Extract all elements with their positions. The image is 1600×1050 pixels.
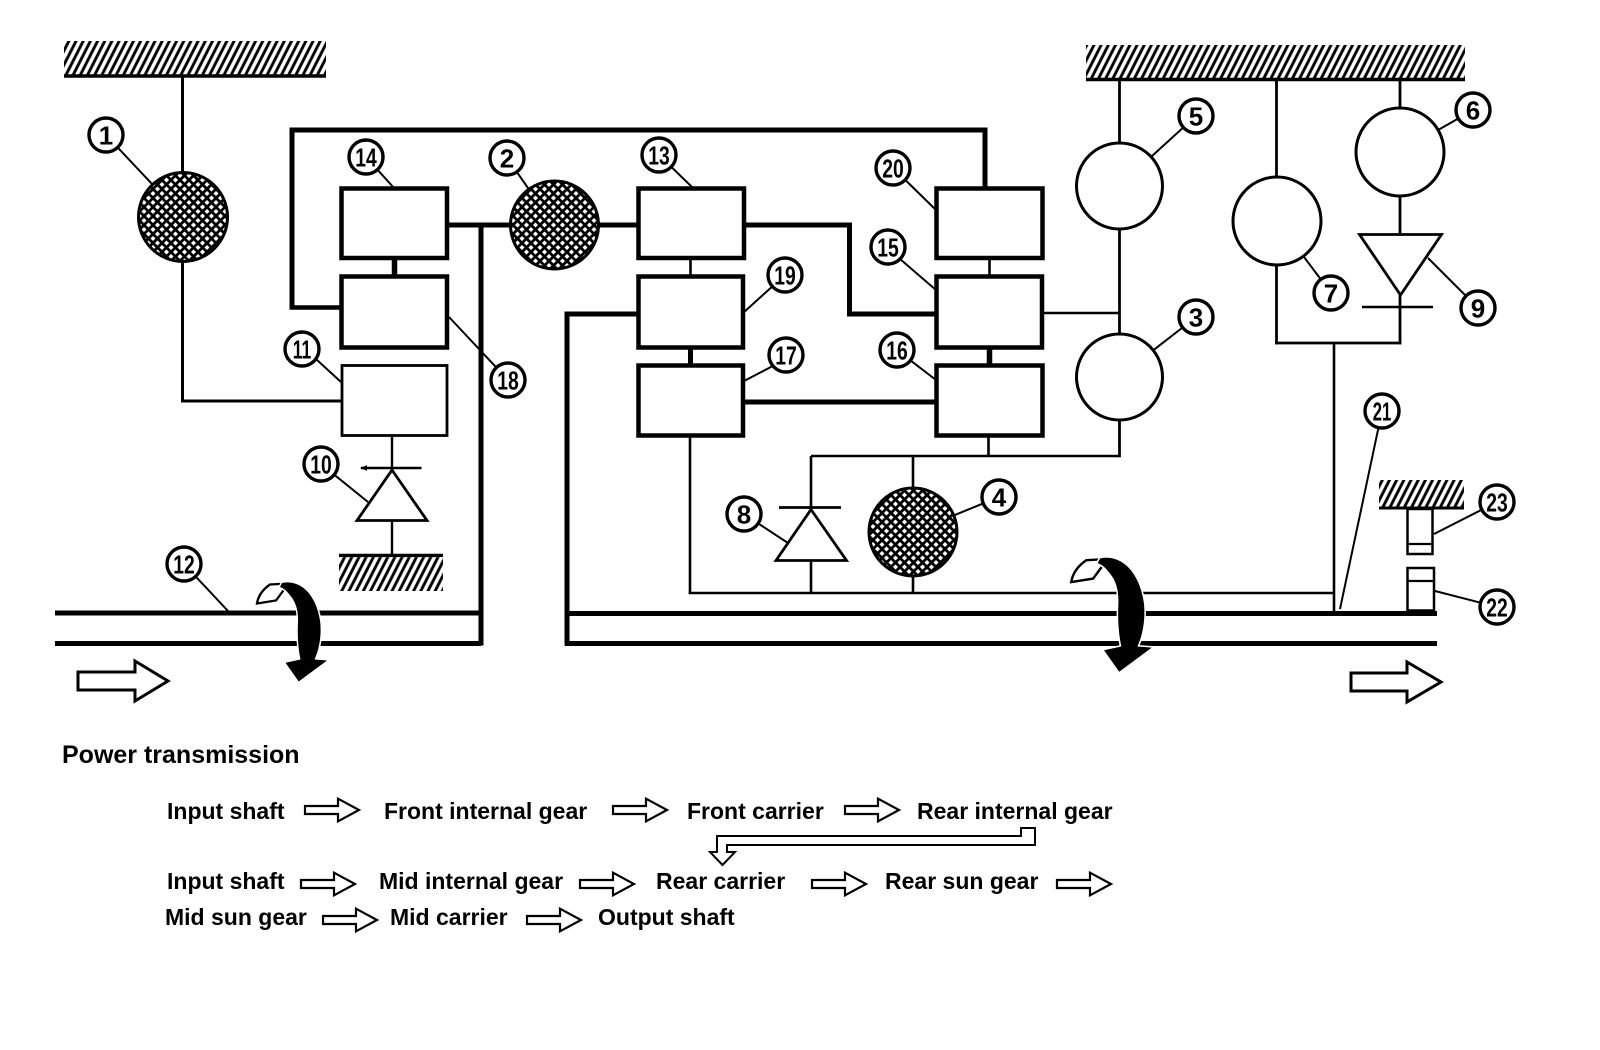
label 19 leader	[743, 286, 772, 313]
legend row 1 arrow 2	[613, 799, 667, 822]
label 5	[1179, 99, 1213, 133]
ceiling hatched block for synchro 23	[1379, 480, 1464, 508]
box 11	[342, 366, 447, 436]
svg-text:Input shaft: Input shaft	[167, 798, 285, 824]
svg-text:Power transmission: Power transmission	[62, 741, 300, 769]
gear 6	[1356, 108, 1444, 196]
wire one-way clutch 8 base down	[810, 560, 813, 593]
one-way clutch 8 triangle	[776, 510, 847, 561]
input shaft bottom line	[55, 641, 481, 646]
label 6	[1456, 93, 1490, 127]
wire from brake 1 down	[181, 259, 184, 403]
svg-text:10: 10	[310, 449, 332, 479]
svg-text:Rear sun gear: Rear sun gear	[885, 868, 1038, 894]
input flow arrow	[78, 661, 168, 701]
label 10	[304, 447, 338, 481]
legend row 1 arrow 1	[305, 799, 359, 822]
frame thick outline (top)	[292, 130, 985, 308]
wire through clutch 4	[912, 456, 915, 593]
wire support to gear 5	[1118, 79, 1121, 145]
svg-text:15: 15	[877, 232, 899, 262]
connector box20-box15	[988, 258, 991, 277]
box 14	[342, 189, 448, 259]
wire gear 3 down to y456	[1118, 418, 1121, 457]
box 19	[639, 277, 744, 348]
ground hatched block under one-way clutch 10	[339, 556, 443, 592]
one-way clutch 8 bar	[779, 506, 841, 509]
label 22 leader	[1435, 591, 1481, 603]
box 13	[639, 189, 745, 259]
thick bus box17 to box16	[743, 400, 936, 405]
legend row 3 arrow 2	[527, 909, 581, 932]
legend row 2 arrow 4	[1057, 873, 1111, 896]
label 18 leader	[449, 317, 496, 368]
legend row 2 arrow 1	[301, 873, 355, 896]
svg-text:20: 20	[882, 153, 904, 183]
label 13 leader	[671, 167, 693, 188]
label 12	[167, 547, 201, 581]
clutch 4 crosshatched	[869, 488, 957, 576]
legend row 2 arrow 3	[812, 873, 866, 896]
svg-text:Output shaft: Output shaft	[598, 904, 735, 930]
wire box17 bottom down	[689, 436, 692, 594]
svg-text:13: 13	[648, 140, 670, 170]
label 6 leader	[1438, 119, 1458, 131]
label 7	[1314, 276, 1348, 310]
svg-text:6: 6	[1466, 95, 1480, 125]
label 2	[490, 141, 524, 175]
label 18	[491, 363, 525, 397]
connector box15-box16	[987, 348, 993, 366]
output shaft bottom line	[565, 641, 1437, 646]
svg-text:5: 5	[1189, 101, 1203, 131]
label 11 leader	[316, 359, 341, 382]
one-way clutch 10 bar arrowtip	[360, 465, 367, 470]
rotation arrow on output shaft	[1071, 558, 1152, 672]
wire gear 5 to gear 3	[1118, 228, 1121, 336]
gear 5	[1077, 143, 1163, 229]
wire horizontal y=343	[1275, 342, 1401, 345]
svg-text:4: 4	[992, 482, 1007, 512]
label 19	[768, 258, 802, 292]
wire box11 to one-way clutch 10	[391, 435, 393, 470]
legend row 2 arrow 2	[580, 873, 634, 896]
wire box15 right to gear line	[1042, 312, 1120, 315]
label 3	[1179, 300, 1213, 334]
rotation arrow on input shaft: flap	[257, 584, 289, 604]
wire down to one-way clutch 8	[810, 456, 813, 508]
wire gear 6 to one-way clutch 9	[1399, 194, 1402, 235]
frame bottom-left segment to box 18	[290, 305, 343, 310]
label 23	[1480, 485, 1514, 519]
label 9 leader	[1428, 258, 1466, 296]
wire horizontal into box 11	[181, 400, 342, 403]
thick bus box13 right, down, to box15	[744, 225, 936, 314]
label 8	[727, 497, 761, 531]
wire horizontal y=593	[689, 592, 1334, 595]
legend row 1 arrow 3	[845, 799, 899, 822]
synchro element 22	[1408, 568, 1435, 611]
thick vertical wire to output shaft left end	[565, 312, 570, 646]
one-way clutch 9 triangle (inverted)	[1360, 235, 1442, 296]
wire box16 bottom down	[987, 436, 990, 457]
thick bus left of box 19	[565, 312, 639, 317]
label 4 leader	[954, 503, 983, 515]
svg-text:12: 12	[173, 549, 195, 579]
connector box13-box19	[689, 258, 692, 277]
fixed support hatched bar top-right	[1086, 45, 1465, 80]
label 13	[642, 138, 676, 172]
wire horizontal y=456	[811, 455, 1119, 458]
label 7 leader	[1303, 256, 1320, 279]
wire from top-left support down to brake 1	[181, 76, 184, 175]
svg-text:8: 8	[737, 499, 751, 529]
svg-text:Input shaft: Input shaft	[167, 868, 285, 894]
wire support to gear 7	[1275, 79, 1278, 179]
wire support to gear 6	[1399, 79, 1402, 110]
wire gear 7 down	[1275, 263, 1278, 344]
label 10 leader	[334, 475, 368, 502]
label 20	[876, 151, 910, 185]
wire down to output shaft near 21	[1333, 343, 1336, 613]
svg-text:9: 9	[1471, 293, 1485, 323]
label 15 leader	[900, 259, 936, 290]
label 14 leader	[377, 170, 394, 188]
one-way clutch 9 bar	[1362, 306, 1433, 308]
svg-text:Mid sun gear: Mid sun gear	[165, 904, 307, 930]
one-way clutch 10 triangle	[357, 470, 427, 521]
connector box14-box18	[392, 258, 398, 277]
rotation arrow on input shaft: band	[280, 582, 327, 681]
label 4	[982, 480, 1016, 514]
svg-text:Rear carrier: Rear carrier	[656, 868, 785, 894]
label 14	[349, 140, 383, 174]
svg-text:14: 14	[355, 142, 377, 172]
legend bent return arrow	[710, 828, 1035, 865]
label 9	[1461, 291, 1495, 325]
label 5 leader	[1151, 127, 1184, 157]
box 20	[937, 189, 1043, 259]
svg-text:2: 2	[500, 143, 514, 173]
svg-text:1: 1	[99, 120, 113, 150]
label 16	[880, 333, 914, 367]
svg-text:Front internal gear: Front internal gear	[384, 798, 587, 824]
svg-text:16: 16	[886, 335, 908, 365]
label 12 leader	[196, 576, 228, 611]
box 17	[639, 366, 744, 436]
label 20 leader	[905, 180, 936, 210]
gear 7	[1233, 177, 1321, 265]
label 22	[1480, 590, 1514, 624]
svg-text:18: 18	[497, 365, 519, 395]
rotation arrow on output shaft: flap	[1071, 559, 1107, 582]
svg-text:22: 22	[1486, 592, 1508, 622]
fixed support hatched bar top-left	[64, 41, 326, 76]
label 21	[1365, 394, 1399, 428]
thick bus box14 to box13 through clutch 2	[447, 223, 638, 228]
input shaft top line	[55, 611, 481, 616]
brake 1 crosshatched	[139, 173, 228, 262]
label 17	[769, 338, 803, 372]
one-way clutch 10 bar	[361, 467, 422, 469]
svg-text:17: 17	[775, 340, 797, 370]
svg-text:Mid internal gear: Mid internal gear	[379, 868, 563, 894]
label 17 leader	[744, 366, 773, 381]
box 15	[937, 277, 1043, 348]
label 15	[871, 230, 905, 264]
clutch 2 crosshatched	[511, 181, 599, 269]
label 1 leader	[118, 147, 153, 184]
label 21 leader	[1340, 428, 1379, 609]
label 16 leader	[911, 360, 937, 380]
wire one-way clutch 9 down	[1399, 295, 1402, 344]
box 18	[342, 277, 448, 348]
rotation arrow on output shaft: band	[1098, 558, 1152, 672]
gear 3	[1077, 334, 1163, 420]
svg-text:11: 11	[293, 334, 312, 364]
label 8 leader	[758, 523, 788, 543]
svg-text:Mid carrier: Mid carrier	[390, 904, 508, 930]
label 3 leader	[1153, 328, 1183, 351]
svg-text:21: 21	[1373, 396, 1392, 426]
output flow arrow	[1351, 662, 1441, 702]
label 1	[89, 118, 123, 152]
svg-text:3: 3	[1189, 302, 1203, 332]
output shaft top line	[565, 611, 1437, 616]
svg-text:Rear internal gear: Rear internal gear	[917, 798, 1113, 824]
label 23 leader	[1434, 510, 1482, 534]
wire one-way clutch 10 to ground	[391, 520, 393, 556]
svg-text:19: 19	[774, 260, 796, 290]
svg-text:Front carrier: Front carrier	[687, 798, 824, 824]
svg-text:7: 7	[1324, 278, 1338, 308]
label 2 leader	[517, 172, 529, 189]
box 16	[937, 366, 1043, 436]
thick vertical wire from bus junction to input shaft	[479, 225, 484, 646]
legend row 3 arrow 1	[323, 909, 377, 932]
svg-text:23: 23	[1486, 487, 1508, 517]
connector box19-box17	[688, 348, 693, 366]
synchro element 23	[1408, 509, 1433, 554]
label 11	[285, 332, 319, 366]
